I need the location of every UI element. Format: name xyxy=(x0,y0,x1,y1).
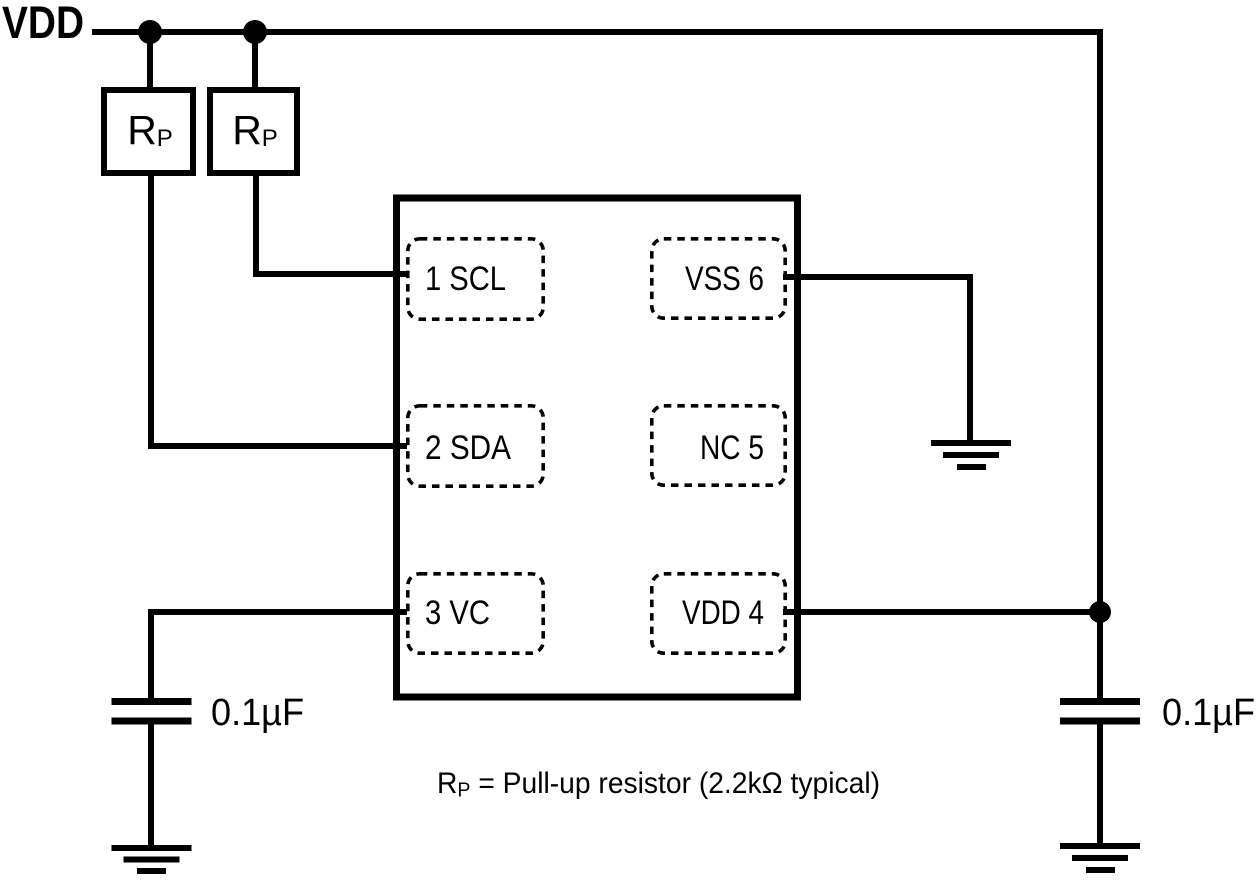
wire pin 6 VSS to ground xyxy=(783,277,970,441)
svg-text:VDD 4: VDD 4 xyxy=(682,594,764,632)
wire capacitor C1 to ground xyxy=(148,724,154,848)
junction dot (VDD4 / right rail) xyxy=(1089,601,1111,623)
wire left RP to pin 2 SDA xyxy=(151,176,407,446)
pin 1 SCL xyxy=(408,239,543,319)
capacitor C2 0.1uF xyxy=(1060,692,1255,734)
wire VDD to left RP xyxy=(147,32,153,88)
svg-text:RP = Pull-up resistor (2.2kΩ t: RP = Pull-up resistor (2.2kΩ typical) xyxy=(437,767,880,802)
svg-text:3 VC: 3 VC xyxy=(425,594,490,632)
ground (right, below C2) xyxy=(1060,843,1140,873)
wire right rail to capacitor C2 xyxy=(1097,612,1103,699)
svg-text:1 SCL: 1 SCL xyxy=(425,260,506,298)
wire VDD to right RP xyxy=(252,32,258,88)
junction dot (VDD rail / right RP) xyxy=(243,20,267,44)
wire pin 4 VDD to right rail xyxy=(783,609,1100,615)
pin 3 VC xyxy=(408,574,543,653)
resistor RP (left) xyxy=(104,90,193,173)
wire right RP to pin 1 SCL xyxy=(256,176,409,274)
capacitor C1 0.1uF xyxy=(112,692,305,734)
wire right VDD rail vertical xyxy=(1097,29,1103,611)
wire VDD top rail xyxy=(92,29,1103,35)
svg-text:2 SDA: 2 SDA xyxy=(425,429,511,467)
junction dot (VDD rail / left RP) xyxy=(138,20,162,44)
pin 5 NC xyxy=(652,406,785,485)
pin 6 VSS xyxy=(652,239,785,318)
resistor RP (right) xyxy=(210,90,297,173)
svg-text:VDD: VDD xyxy=(2,0,84,48)
svg-text:VSS 6: VSS 6 xyxy=(685,260,764,298)
IC U1 body xyxy=(397,198,798,697)
wire pin 3 VC to capacitor C1 xyxy=(151,612,407,699)
svg-text:0.1µF: 0.1µF xyxy=(1162,692,1255,734)
ground (middle, VSS) xyxy=(931,440,1011,470)
wire capacitor C2 to ground xyxy=(1097,724,1103,846)
pin 2 SDA xyxy=(408,406,543,486)
svg-text:NC 5: NC 5 xyxy=(700,429,764,467)
ground (left, below C1) xyxy=(112,845,192,874)
pin 4 VDD xyxy=(652,574,785,653)
svg-text:0.1µF: 0.1µF xyxy=(211,692,304,734)
